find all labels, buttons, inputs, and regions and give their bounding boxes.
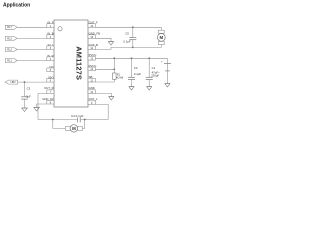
wire bottom motor rail: [38, 119, 108, 121]
wire C3 bottom lead: [24, 99, 26, 108]
capacitor C4: [71, 114, 84, 122]
wire R1 top lead: [113, 58, 115, 73]
svg-text:OUT_L: OUT_L: [89, 97, 98, 101]
svg-text:NC/AB: NC/AB: [116, 77, 124, 80]
svg-text:C2: C2: [134, 66, 138, 70]
pin LBO 6: [47, 75, 55, 82]
wire PVCC pin12 to R1 column: [95, 68, 114, 70]
wire RL7 to IN_F: [17, 26, 47, 28]
resistor R1: [113, 73, 124, 80]
svg-text:M: M: [72, 126, 76, 131]
node PVCC pin12 / R1 column: [113, 68, 115, 70]
svg-text:220µF: 220µF: [151, 74, 159, 78]
svg-text:RL3: RL3: [7, 48, 12, 51]
pin IN_L 3: [47, 43, 54, 50]
wire C2 top lead: [131, 58, 133, 77]
svg-text:M: M: [159, 35, 163, 40]
svg-text:RL2: RL2: [7, 37, 12, 40]
pin PVCC 13: [88, 53, 96, 60]
node bottom loop right: [84, 119, 86, 121]
svg-text:AM1127S: AM1127S: [74, 46, 83, 80]
capacitor C2: [128, 66, 141, 80]
capacitor C3: [21, 87, 31, 100]
wire LBO to pin 6: [18, 81, 47, 83]
ground under C1: [147, 87, 152, 91]
wire C1 bottom lead: [148, 80, 150, 87]
wire GND_LR stub: [37, 104, 47, 107]
wire rail corner to battery: [166, 58, 168, 63]
pin OUT_F 16: [88, 21, 98, 28]
pin SB 11: [88, 75, 95, 83]
node rail / R1: [113, 57, 115, 59]
wire R1 bottom lead to SB: [95, 79, 114, 82]
node rail / C1: [148, 57, 150, 59]
ground under C3: [22, 108, 28, 112]
pin GND_LR 8: [42, 97, 54, 105]
pin NC 5: [47, 65, 54, 72]
pin IN_R 4: [47, 54, 54, 61]
svg-text:C1: C1: [152, 66, 156, 70]
capacitor C1: [146, 66, 160, 80]
pin OUT_R 7: [44, 86, 54, 94]
pin PVCC 12: [88, 64, 96, 71]
node OUT_B / C5: [132, 47, 134, 49]
pin GND 10: [88, 86, 95, 94]
battery BT1: [161, 59, 171, 71]
wire OUT_F net: [95, 26, 161, 28]
wire C1 top lead: [148, 58, 150, 77]
ground under battery: [165, 84, 170, 88]
pin OUT_B 14: [88, 43, 98, 50]
node bottom loop left: [52, 119, 54, 121]
node OUT_F / C5: [132, 26, 134, 28]
svg-text:0.1µF: 0.1µF: [123, 40, 130, 44]
ground GND_LR: [34, 107, 40, 111]
wire RL2 to IN_B: [17, 37, 47, 39]
ground GND pin: [109, 97, 114, 101]
op-amp U1 AM1127S body: [54, 20, 88, 107]
wire OUT_B net: [95, 47, 161, 49]
svg-text:C4 0.1µF: C4 0.1µF: [71, 114, 84, 118]
pin IN_B 2: [47, 32, 54, 39]
wire GND pin stub: [95, 93, 111, 96]
wire RL3 to IN_L: [17, 49, 47, 51]
svg-text:RL1: RL1: [7, 59, 12, 62]
wire battery bottom lead: [166, 63, 168, 83]
wire C5 top lead: [132, 27, 134, 37]
pin GND_FB 15: [88, 32, 100, 39]
svg-text:LBO: LBO: [10, 81, 15, 84]
svg-text:3µF: 3µF: [26, 94, 31, 98]
ground under C2: [129, 87, 134, 91]
connector RL1: [5, 59, 17, 63]
connector RL3: [5, 48, 17, 52]
wire bottom motor branch: [53, 120, 85, 129]
pin OUT_L 9: [88, 97, 98, 105]
node LBO/C3 junction: [24, 81, 26, 83]
wire C3 top lead: [24, 82, 26, 96]
wire C5 bottom lead: [132, 40, 134, 47]
ground GND_FB: [108, 42, 113, 46]
svg-text:0.1µF: 0.1µF: [134, 72, 141, 76]
motor M2 bottom: [65, 125, 82, 132]
connector RL2: [5, 36, 17, 40]
node rail / C2: [131, 57, 133, 59]
wire PVCC rail: [95, 57, 167, 59]
connector RL7: [5, 25, 17, 29]
wire RL1 to IN_R: [17, 60, 47, 62]
svg-text:C5: C5: [125, 31, 129, 35]
wire OUT_R to left motor loop: [38, 94, 47, 120]
wire GND_FB stub: [95, 38, 111, 41]
svg-text:OUT_R: OUT_R: [44, 86, 53, 90]
connector LBO: [5, 80, 17, 84]
pin IN_F 1: [47, 21, 54, 28]
capacitor C5: [123, 31, 136, 43]
svg-text:RL7: RL7: [7, 26, 12, 29]
svg-text:Application: Application: [3, 2, 30, 8]
svg-text:C3: C3: [27, 87, 31, 91]
wire OUT_L to bottom loop: [95, 104, 108, 119]
motor M1 right: [157, 27, 165, 47]
wire C2 bottom lead: [131, 80, 133, 87]
